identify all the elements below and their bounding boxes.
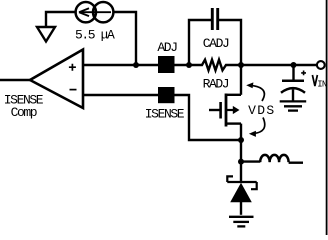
current source I1 (two circles) [76,2,96,22]
node: current source junction [133,62,139,68]
svg-text:IN: IN [317,80,327,90]
svg-text:RADJ: RADJ [203,76,229,91]
current source arrow [80,11,111,13]
curved arrow to source [252,118,265,134]
wire: current source to + rail [113,12,136,65]
wire: main rail to VIN terminal [241,64,317,66]
MOSFET source stub [226,122,241,124]
pin box ADJ [158,56,175,73]
resistor RADJ [189,60,241,71]
terminal VIN (open circle) [317,61,325,69]
MOSFET channel bar [225,94,228,127]
svg-text:5.5 μA: 5.5 μA [75,28,115,43]
capacitor CADJ plates [212,8,217,30]
figure border right edge [326,0,328,235]
curved arrow to drain [249,85,264,101]
wire: comparator output to left edge [0,79,31,81]
node: ADJ left of resistor [186,62,192,68]
wire: triangle to current source [46,12,76,27]
svg-text:ADJ: ADJ [157,40,177,55]
capacitor CIN (polarized) [292,65,294,80]
node: main rail right [238,62,244,68]
inductor L1 [241,160,260,162]
wire: drain up to rail [240,65,242,95]
node: source / ISENSE junction [238,137,244,143]
op-amp U1 ISENSE comparator [30,50,83,109]
svg-text:Comp: Comp [11,105,37,120]
schottky diode anode triangle [230,183,252,203]
MOSFET drain stub [226,94,241,96]
schottky diode D1 cathode bar [227,176,256,189]
MOSFET M1 gate lead [209,109,220,111]
wire: + input rail [83,64,189,66]
svg-text:VDS: VDS [248,103,275,118]
svg-text:ISENSE: ISENSE [145,106,185,121]
ground for CIN [280,100,307,102]
wire: source down through nodes to diode [240,124,242,183]
node: inductor tap [238,159,244,165]
capacitor CADJ branch wires [189,20,241,65]
wire: - input rail [83,95,241,140]
ground for diode [229,216,254,218]
ground arrow symbol (down triangle) [37,27,55,42]
MOSFET body arrow [226,109,233,111]
op-amp minus input marker [70,89,77,91]
svg-text:CADJ: CADJ [203,36,229,51]
node: VIN cap tap [291,62,297,68]
plus sign of input capacitor [301,71,306,76]
pin box ISENSE [158,87,175,103]
op-amp plus input marker [69,64,76,71]
wire: diode to ground [240,202,242,215]
MOSFET gate bar [219,102,222,119]
label VIN [312,75,317,86]
